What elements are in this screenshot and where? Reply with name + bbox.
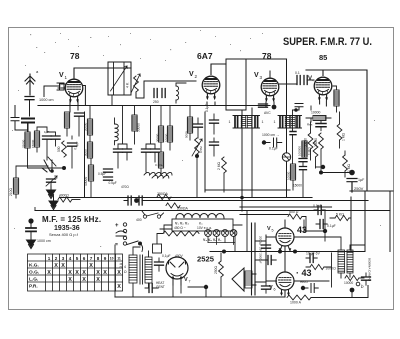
svg-text:1: 1 (229, 120, 231, 124)
resistor 1M lower (343, 155, 348, 171)
tube V3 78 (261, 78, 279, 102)
switch lower arm (127, 241, 138, 245)
wire top right corner B4 (310, 106, 312, 122)
svg-text:250: 250 (153, 100, 159, 104)
resistor V1 cathode (64, 112, 69, 128)
svg-text:4000Ω: 4000Ω (59, 194, 69, 198)
svg-text:1000 A: 1000 A (290, 301, 302, 305)
svg-text:10000: 10000 (311, 111, 321, 115)
wires V5 V6 column (266, 220, 285, 297)
V2 cathode leads (207, 102, 215, 106)
resistor x161 (158, 126, 163, 142)
tube V4 85 (314, 77, 332, 101)
cap+dot below V3 (259, 104, 268, 107)
lower antenna terminal (28, 218, 33, 223)
svg-text:X: X (82, 270, 86, 276)
antenna (25, 74, 35, 95)
svg-text:· 43: · 43 (296, 268, 312, 278)
resistor 1M upper (337, 124, 342, 140)
caps pair left (43, 136, 52, 139)
svg-text:2 MΩ: 2 MΩ (217, 162, 221, 170)
svg-text:11: 11 (117, 257, 121, 261)
svg-text:Senza 400 Ω p.f: Senza 400 Ω p.f (49, 232, 79, 237)
svg-text:5000: 5000 (185, 131, 189, 138)
svg-text:85: 85 (319, 53, 327, 62)
left resistor column b (34, 131, 39, 147)
junction dot (62, 166, 66, 170)
svg-text:5000: 5000 (84, 149, 88, 156)
svg-text:25000: 25000 (22, 139, 26, 148)
svg-text:X: X (68, 270, 72, 276)
transformer leads (294, 237, 365, 250)
output transformer (338, 250, 353, 273)
svg-text:4 K: 4 K (126, 82, 130, 88)
svg-text:+: + (115, 223, 119, 229)
svg-text:V: V (269, 285, 273, 291)
resistor 500000 left B4 (308, 133, 313, 149)
ground left (47, 186, 56, 199)
tube V2 6A7 (202, 76, 220, 100)
cap below transformer (149, 284, 152, 293)
cap V1 cathode (75, 113, 84, 116)
2525 to bus wires (173, 285, 181, 297)
V3 cathode leads (266, 102, 274, 106)
junction dot right (321, 165, 325, 169)
svg-text:BOBINA CAMPO: BOBINA CAMPO (368, 258, 372, 282)
svg-text:1µF: 1µF (358, 178, 365, 182)
svg-text:6: 6 (274, 288, 276, 292)
svg-text:250ΩA: 250ΩA (157, 192, 168, 196)
waveband table (28, 254, 123, 291)
V1 cathode leads (58, 84, 85, 112)
cap 0.1uF second (320, 220, 323, 229)
svg-text:0.5µF: 0.5µF (98, 172, 106, 176)
heater cap bottom (301, 286, 305, 290)
bus y210 (35, 210, 390, 212)
caps left of IF x214 (210, 120, 219, 123)
cap + dot pair on top bus (128, 196, 131, 205)
svg-text:4: 4 (124, 265, 126, 269)
caps 0.1uF x107 (104, 169, 113, 172)
svg-text:5 KΩ: 5 KΩ (336, 213, 344, 217)
electrolytic 1uF 250V (349, 170, 355, 176)
svg-text:1000 cm →: 1000 cm → (262, 133, 279, 137)
svg-text:7: 7 (90, 256, 93, 261)
svg-text:2000µF 25V 2000µF: 2000µF 25V 2000µF (259, 236, 263, 264)
svg-text:SUPER. F.M.R. 77 U.: SUPER. F.M.R. 77 U. (283, 36, 372, 48)
heater coil bumps (176, 214, 224, 219)
heater box Va Vb Vc (172, 219, 233, 231)
svg-text:X: X (96, 277, 100, 283)
variable capacitor (47, 179, 56, 182)
resistor 4K with arrow (134, 76, 139, 92)
svg-text:15000: 15000 (293, 184, 302, 188)
svg-text:9: 9 (104, 256, 107, 261)
bus y192 right (205, 190, 393, 191)
capacitor big left (22, 119, 34, 123)
resistor 10000 bottom right (345, 275, 359, 280)
svg-text:2: 2 (55, 256, 58, 261)
speckle noise (12, 30, 381, 247)
power transformer winding 1 (129, 255, 137, 283)
svg-text:10000: 10000 (344, 281, 353, 285)
svg-text:0.1µF: 0.1µF (327, 224, 336, 228)
resistor col x90 mid (87, 142, 92, 158)
wire V1 top cap (74, 68, 131, 79)
cap 0.1 (68, 143, 77, 146)
svg-text:5: 5 (272, 229, 274, 233)
caps pair mid1 (114, 149, 123, 152)
svg-text:0.5µF: 0.5µF (109, 181, 117, 185)
resistor 5K (335, 215, 349, 220)
svg-text:400: 400 (136, 218, 142, 222)
long verticals mid (242, 59, 287, 211)
svg-text:V: V (308, 76, 312, 82)
junction dot right of V7 (204, 285, 208, 289)
switch upper with circles (143, 215, 146, 218)
dot bottom right (350, 288, 355, 293)
tiny value labels texture (22, 122, 204, 167)
svg-text:X: X (96, 270, 100, 276)
svg-text:0.1µF: 0.1µF (155, 163, 163, 167)
svg-text:4: 4 (69, 256, 72, 261)
tube V7 2525 (166, 257, 188, 285)
bus y197 (60, 197, 312, 199)
svg-text:10V e.c.a.: 10V e.c.a. (197, 226, 212, 230)
svg-text:Res: Res (307, 123, 313, 127)
resistor 250 vertical (219, 261, 224, 277)
choke bumps bottom (144, 172, 172, 175)
tube V1 78 (65, 79, 83, 103)
svg-text:1000 cm: 1000 cm (39, 98, 54, 102)
cap x197 (194, 124, 203, 127)
svg-text:50000: 50000 (137, 123, 141, 132)
resistor col x90 upper (87, 119, 92, 135)
resistor 100000 vertical (302, 141, 307, 157)
oscillator coil box (108, 62, 131, 95)
pilot lamp circles (205, 230, 237, 237)
svg-text:V: V (254, 72, 259, 79)
svg-text:X: X (117, 270, 121, 276)
svg-text:O.G.: O.G. (29, 270, 39, 276)
svg-text:10000: 10000 (165, 133, 169, 142)
svg-text:500: 500 (57, 146, 61, 152)
coil mid top (176, 86, 179, 100)
svg-text:210Ω: 210Ω (9, 187, 13, 196)
left edge small cap (11, 106, 28, 131)
svg-text:0,1µF: 0,1µF (162, 254, 171, 258)
resistor 400000 (132, 115, 137, 131)
svg-text:1935-36: 1935-36 (54, 225, 80, 232)
wire V1 grid to antenna coil (44, 86, 60, 97)
resistor x161 lower (158, 152, 163, 168)
svg-text:450 Ω ~: 450 Ω ~ (174, 226, 186, 230)
svg-text:X: X (61, 263, 65, 269)
resistor x190 (187, 117, 192, 133)
wires left column (28, 124, 65, 168)
svg-text:15000: 15000 (31, 139, 35, 148)
junction dots V5 (278, 250, 282, 254)
resistor 40000 lower (88, 165, 93, 181)
caps pair mid2 (142, 149, 151, 152)
dot and cap 0.1 (262, 140, 266, 144)
svg-text:0.1: 0.1 (295, 71, 300, 75)
main bus y105 (38, 105, 270, 107)
resistor 500 to V5 (240, 207, 332, 215)
speaker (232, 268, 244, 291)
wire V4 plate to right rail (306, 70, 367, 191)
cap pair mid top (154, 89, 157, 98)
junction dot B4 (319, 171, 323, 175)
cap x214 lower (210, 142, 219, 145)
svg-text:1 MΩ: 1 MΩ (342, 133, 346, 141)
svg-text:K.G.: K.G. (29, 263, 39, 269)
svg-text:30000: 30000 (156, 133, 160, 142)
svg-text:43: 43 (297, 225, 307, 235)
svg-text:0.1µF: 0.1µF (205, 104, 209, 112)
transformer core lines (140, 255, 143, 284)
V4 cathode leads (320, 101, 327, 106)
svg-text:X: X (68, 277, 72, 283)
heater rheostat zigzag (163, 231, 199, 236)
IF transformer 2 trimmers (280, 116, 300, 127)
svg-text:X: X (89, 263, 93, 269)
svg-text:X: X (103, 270, 107, 276)
volume pot (195, 138, 200, 154)
resistor 2M (222, 157, 227, 173)
svg-text:10: 10 (110, 257, 114, 261)
svg-text:P.R.: P.R. (29, 284, 38, 290)
IF transformer 1 trimmers (235, 116, 258, 127)
svg-text:2525: 2525 (197, 255, 214, 264)
svg-text:X: X (75, 270, 79, 276)
svg-text:100000: 100000 (298, 146, 302, 156)
svg-text:1: 1 (48, 256, 51, 261)
caps between V3 V4 (297, 76, 300, 85)
power transformer winding 2 (145, 257, 152, 283)
svg-text:78: 78 (70, 51, 80, 61)
svg-text:3 A: 3 A (119, 262, 123, 268)
resistor 250A second (166, 203, 180, 208)
svg-text:7: 7 (189, 280, 191, 284)
resistor 1000A bottom (287, 295, 311, 300)
switch arm left (42, 160, 50, 172)
svg-text:0.1µF: 0.1µF (313, 204, 322, 208)
vertical x205 (204, 112, 206, 192)
resistor 100K (310, 264, 324, 269)
svg-text:20000: 20000 (84, 122, 88, 131)
transformer top leads (133, 247, 149, 257)
svg-text:1: 1 (262, 120, 264, 124)
wires heater box (160, 225, 242, 233)
svg-text:X: X (47, 270, 51, 276)
resistor 250A top (157, 194, 171, 199)
bottom bus (115, 296, 285, 298)
svg-text:X: X (117, 284, 121, 290)
svg-text:V: V (189, 71, 194, 78)
svg-text:L.G.: L.G. (29, 277, 38, 283)
svg-text:V: V (184, 277, 188, 283)
svg-text:V: V (267, 226, 271, 232)
svg-text:1 MΩ: 1 MΩ (308, 147, 312, 155)
pot zigzag right (313, 141, 318, 157)
svg-text:1µF: 1µF (44, 130, 49, 134)
resistor 500 (62, 141, 67, 157)
cap bottom right (362, 277, 371, 280)
resistor x170 (167, 126, 172, 142)
svg-text:1: 1 (274, 120, 276, 124)
svg-text:250Ω: 250Ω (214, 265, 218, 274)
wire V2 plate loop (211, 64, 226, 75)
wire x247 (246, 211, 248, 252)
switch mid-left (48, 157, 56, 170)
IF can rect (226, 59, 246, 110)
svg-text:6A7: 6A7 (197, 51, 213, 61)
svg-text:500 Ω: 500 Ω (289, 210, 299, 214)
caps above cluster (293, 104, 304, 111)
svg-text:V₄ V₅ V₆ V₇: V₄ V₅ V₆ V₇ (203, 238, 222, 242)
svg-text:6: 6 (83, 256, 86, 261)
svg-text:470Ω: 470Ω (121, 185, 129, 189)
tube V6 43 (276, 272, 294, 296)
tube V5 43 (276, 228, 294, 252)
svg-text:8: 8 (97, 256, 100, 261)
left resistor column a (25, 132, 30, 148)
svg-text:3: 3 (62, 256, 65, 261)
svg-text:10000: 10000 (287, 171, 291, 180)
mid cluster: coil left (115, 124, 119, 141)
svg-text:5: 5 (76, 256, 79, 261)
svg-text:250V: 250V (354, 186, 364, 191)
svg-text:HEAT: HEAT (300, 280, 308, 284)
phono terminal (116, 231, 126, 236)
svg-text:AVC: AVC (264, 111, 271, 115)
resistor right of V4 (334, 90, 339, 106)
svg-text:0.5M: 0.5M (199, 146, 203, 153)
ground mid-left with 4000ohm (49, 197, 58, 210)
svg-text:M.F. = 125 kHz.: M.F. = 125 kHz. (42, 215, 101, 224)
wire IF top to V3 (246, 58, 287, 60)
verticals right section (351, 192, 390, 252)
bus y251 (210, 251, 365, 253)
long vertical x84 (84, 112, 86, 198)
svg-text:250ΩA: 250ΩA (177, 207, 188, 211)
svg-text:1000 cm: 1000 cm (37, 239, 51, 243)
terminal b (356, 282, 360, 286)
caps 0.1uF upper right (318, 206, 321, 215)
resistor 10000 vertical left (290, 164, 295, 180)
svg-text:0.1µF: 0.1µF (269, 147, 278, 151)
tuning lamp (282, 153, 290, 161)
caps on rail upper (262, 245, 271, 248)
wire osc to V2 (136, 81, 196, 98)
resistor 210 far left (13, 178, 18, 194)
svg-text:X: X (82, 277, 86, 283)
wire V3 to V4 top (280, 80, 314, 84)
capacitor antenna 1000cm (25, 97, 34, 100)
cap right of transformer (155, 262, 164, 265)
bus y200 (180, 200, 368, 202)
svg-text:V: V (59, 72, 64, 79)
resistor vert 250000 (319, 133, 324, 149)
svg-text:X: X (54, 263, 58, 269)
caps on rail lower (262, 286, 271, 289)
electrolytic rail double line (252, 223, 256, 295)
AVC diode network cluster (290, 110, 307, 198)
junction dot right mid (323, 229, 327, 233)
